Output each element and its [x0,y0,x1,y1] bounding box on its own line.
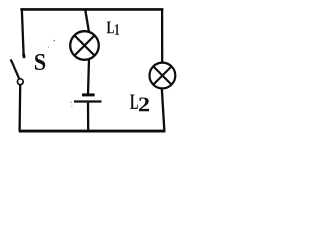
switch S fixed contact tip [22,55,25,57]
wire left lower [18,85,21,132]
wire branch bottom stub [87,103,89,132]
wire branch top stub [85,9,89,33]
wire right upper [161,8,163,63]
wire bottom [19,130,166,133]
scan speckles [48,40,73,107]
label L1 letter L [107,22,114,34]
label L2 subscript 2 [139,98,149,112]
lamp L2 cross [153,66,171,84]
switch S blade [11,59,20,78]
label L2 letter L [130,95,138,109]
wire right lower [162,88,165,131]
wire left upper [22,8,24,54]
lamp L1 circle [70,31,99,60]
wire top [20,8,163,11]
switch S pivot circle [17,79,23,85]
battery positive plate (long) [74,100,102,102]
lamp L2 circle [150,63,176,89]
battery negative plate (short thick) [82,93,95,96]
label S [35,54,45,70]
label L1 subscript 1 [115,24,119,35]
wire branch middle stub [88,59,89,94]
lamp L1 cross [74,35,94,55]
